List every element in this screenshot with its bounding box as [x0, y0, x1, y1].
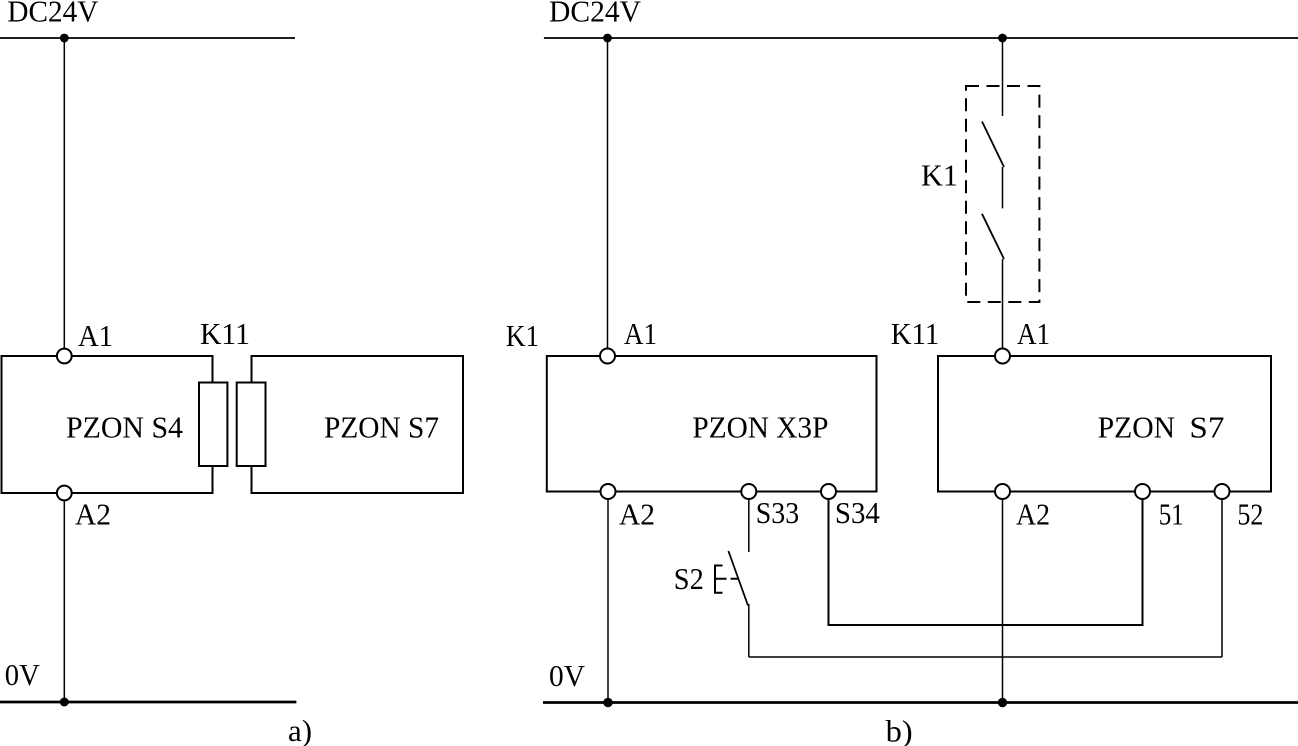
wire: A2 to 0V bus (a)	[63, 501, 65, 703]
svg-text:51: 51	[1159, 497, 1184, 532]
switch S2 blade	[728, 551, 748, 606]
terminal A2 of PZON S7 (b)	[995, 484, 1010, 499]
wire: DC24V bus (a)	[0, 37, 295, 39]
wire: contact K1 to A1 of PZON S7	[1002, 259, 1004, 349]
junction dot on 0V bus (a)	[60, 698, 69, 707]
svg-text:S7: S7	[1189, 410, 1224, 445]
svg-text:S33: S33	[756, 495, 799, 530]
svg-text:DC24V: DC24V	[549, 0, 642, 29]
wire: S34 to 51 horizontal	[828, 624, 1144, 626]
switch S2 actuator dashed link	[716, 578, 739, 580]
svg-text:PZON S7: PZON S7	[324, 410, 439, 445]
wire: S33 to switch S2	[748, 499, 750, 552]
wire between K1 contacts	[1002, 167, 1004, 208]
switch S2 actuator bracket	[715, 566, 723, 593]
terminal A1 (a)	[57, 349, 72, 364]
junction dot on 0V bus right (b)	[998, 698, 1007, 707]
wire: S2 to 52 horizontal	[749, 656, 1222, 658]
relay box PZON X3P	[547, 356, 877, 492]
svg-text:K11: K11	[200, 316, 250, 351]
junction dot on DC24V bus (a)	[60, 34, 69, 43]
svg-text:S34: S34	[835, 495, 880, 530]
svg-text:A2: A2	[75, 497, 111, 532]
svg-text:0V: 0V	[549, 658, 586, 693]
wire: 0V bus (a)	[0, 701, 296, 704]
svg-text:A2: A2	[619, 497, 655, 532]
svg-text:DC24V: DC24V	[7, 0, 99, 29]
svg-text:S2: S2	[674, 561, 704, 596]
svg-text:A1: A1	[1017, 316, 1050, 351]
terminal 52	[1215, 484, 1230, 499]
contact element K11 right rectangle	[237, 383, 266, 467]
junction dot on DC24V bus left (b)	[603, 34, 612, 43]
svg-text:A2: A2	[1016, 497, 1050, 532]
contact blade 2 of K1	[982, 214, 1004, 259]
svg-text:PZON: PZON	[1098, 410, 1176, 445]
svg-text:A1: A1	[78, 318, 113, 353]
svg-text:K1: K1	[921, 158, 958, 193]
terminal 51	[1135, 484, 1150, 499]
dashed box contact K1	[966, 86, 1039, 302]
relay box PZON S7 (b)	[938, 356, 1271, 492]
terminal A2 of PZON X3P	[601, 484, 616, 499]
wire: DC24V bus to A1 (a)	[63, 38, 65, 349]
terminal S33	[741, 484, 756, 499]
wire: DC24V into contact K1	[1002, 38, 1004, 116]
relay box PZON S4	[2, 356, 213, 493]
wire: A2 PZON X3P to 0V bus	[607, 499, 609, 703]
wire: S2 down	[748, 604, 750, 657]
junction dot on 0V bus left (b)	[603, 698, 612, 707]
svg-text:0V: 0V	[5, 657, 41, 692]
wire: DC24V bus to A1 of K1 (b)	[607, 38, 609, 349]
svg-text:K1: K1	[506, 318, 540, 353]
wire: up to terminal 52	[1221, 499, 1223, 657]
wire: S34 down	[828, 499, 830, 625]
svg-text:a): a)	[288, 713, 312, 746]
svg-text:b): b)	[886, 714, 913, 746]
svg-text:PZON X3P: PZON X3P	[692, 410, 828, 445]
svg-text:PZON S4: PZON S4	[66, 410, 183, 445]
contact element K11 left rectangle	[199, 383, 227, 467]
wire: DC24V bus (b)	[544, 37, 1298, 39]
terminal A1 of PZON X3P	[600, 349, 615, 364]
svg-text:52: 52	[1237, 497, 1263, 532]
svg-text:A1: A1	[624, 316, 657, 351]
wire: up to terminal 51	[1142, 499, 1144, 626]
wire: A2 PZON S7 to 0V bus	[1002, 499, 1004, 703]
junction dot on DC24V bus right (b)	[998, 34, 1007, 43]
contact blade 1 of K1	[982, 122, 1004, 168]
relay box PZON S7 (a)	[252, 356, 464, 493]
wire: 0V bus (b)	[543, 701, 1298, 704]
terminal A1 of PZON S7 (b)	[995, 349, 1010, 364]
terminal A2 (a)	[57, 486, 72, 501]
svg-text:K11: K11	[891, 316, 940, 351]
terminal S34	[821, 484, 836, 499]
